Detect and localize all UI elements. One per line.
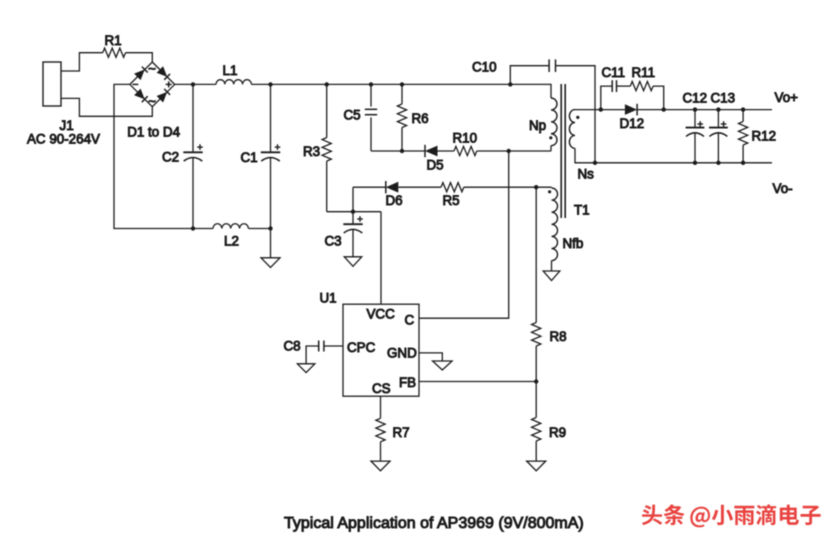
svg-text:C1: C1: [241, 150, 258, 165]
svg-text:L2: L2: [224, 234, 239, 249]
svg-text:Typical Application of AP3969: Typical Application of AP3969 (9V/800mA): [284, 515, 584, 532]
svg-text:C13: C13: [711, 91, 736, 106]
svg-text:~: ~: [148, 94, 156, 109]
svg-text:Np: Np: [529, 118, 546, 133]
svg-text:D12: D12: [620, 116, 645, 131]
svg-text:R5: R5: [443, 193, 460, 208]
svg-text:C10: C10: [472, 60, 497, 75]
svg-text:L1: L1: [223, 63, 238, 78]
svg-text:~: ~: [148, 61, 156, 76]
svg-text:GND: GND: [387, 346, 417, 361]
svg-text:C3: C3: [325, 234, 342, 249]
svg-text:C11: C11: [602, 65, 626, 80]
svg-text:U1: U1: [320, 291, 337, 306]
svg-text:C12: C12: [683, 91, 708, 106]
svg-text:R7: R7: [393, 425, 410, 440]
svg-text:C2: C2: [162, 150, 179, 165]
svg-text:R8: R8: [550, 329, 567, 344]
svg-text:AC 90-264V: AC 90-264V: [27, 132, 100, 147]
svg-text:D6: D6: [386, 193, 403, 208]
svg-text:CPC: CPC: [347, 340, 376, 355]
svg-text:FB: FB: [399, 375, 416, 390]
svg-text:Vo+: Vo+: [775, 90, 799, 105]
svg-text:D1 to D4: D1 to D4: [127, 125, 180, 140]
svg-text:D5: D5: [427, 158, 444, 173]
svg-text:Vo-: Vo-: [773, 181, 793, 196]
svg-text:C8: C8: [284, 339, 301, 354]
svg-text:C5: C5: [344, 108, 361, 123]
svg-text:R12: R12: [752, 129, 777, 144]
svg-text:R1: R1: [105, 33, 122, 48]
svg-text:Nfb: Nfb: [563, 236, 584, 251]
svg-text:VCC: VCC: [367, 307, 396, 322]
svg-text:R9: R9: [549, 425, 566, 440]
svg-text:CS: CS: [372, 381, 391, 396]
svg-text:R10: R10: [453, 131, 478, 146]
svg-text:R3: R3: [303, 144, 320, 159]
svg-text:C: C: [405, 313, 415, 328]
svg-text:R6: R6: [412, 111, 429, 126]
svg-text:T1: T1: [574, 203, 590, 218]
svg-text:Ns: Ns: [578, 167, 595, 182]
svg-text:R11: R11: [632, 65, 656, 80]
